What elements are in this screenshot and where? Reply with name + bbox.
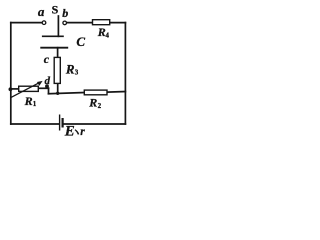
svg-text:3: 3	[75, 69, 79, 77]
svg-text:S: S	[52, 3, 59, 17]
svg-text:c: c	[44, 52, 50, 66]
svg-text:r: r	[80, 126, 85, 137]
svg-text:R: R	[24, 94, 33, 108]
svg-text:R: R	[97, 25, 106, 39]
svg-text:d: d	[45, 75, 51, 87]
svg-text:R: R	[88, 95, 97, 109]
svg-text:E: E	[64, 124, 75, 138]
svg-text:4: 4	[106, 31, 110, 39]
svg-text:C: C	[76, 34, 85, 49]
svg-text:1: 1	[33, 100, 37, 108]
svg-text:b: b	[62, 6, 68, 20]
svg-text:a: a	[38, 4, 45, 19]
svg-text:2: 2	[98, 102, 102, 110]
svg-text:R: R	[65, 62, 75, 77]
